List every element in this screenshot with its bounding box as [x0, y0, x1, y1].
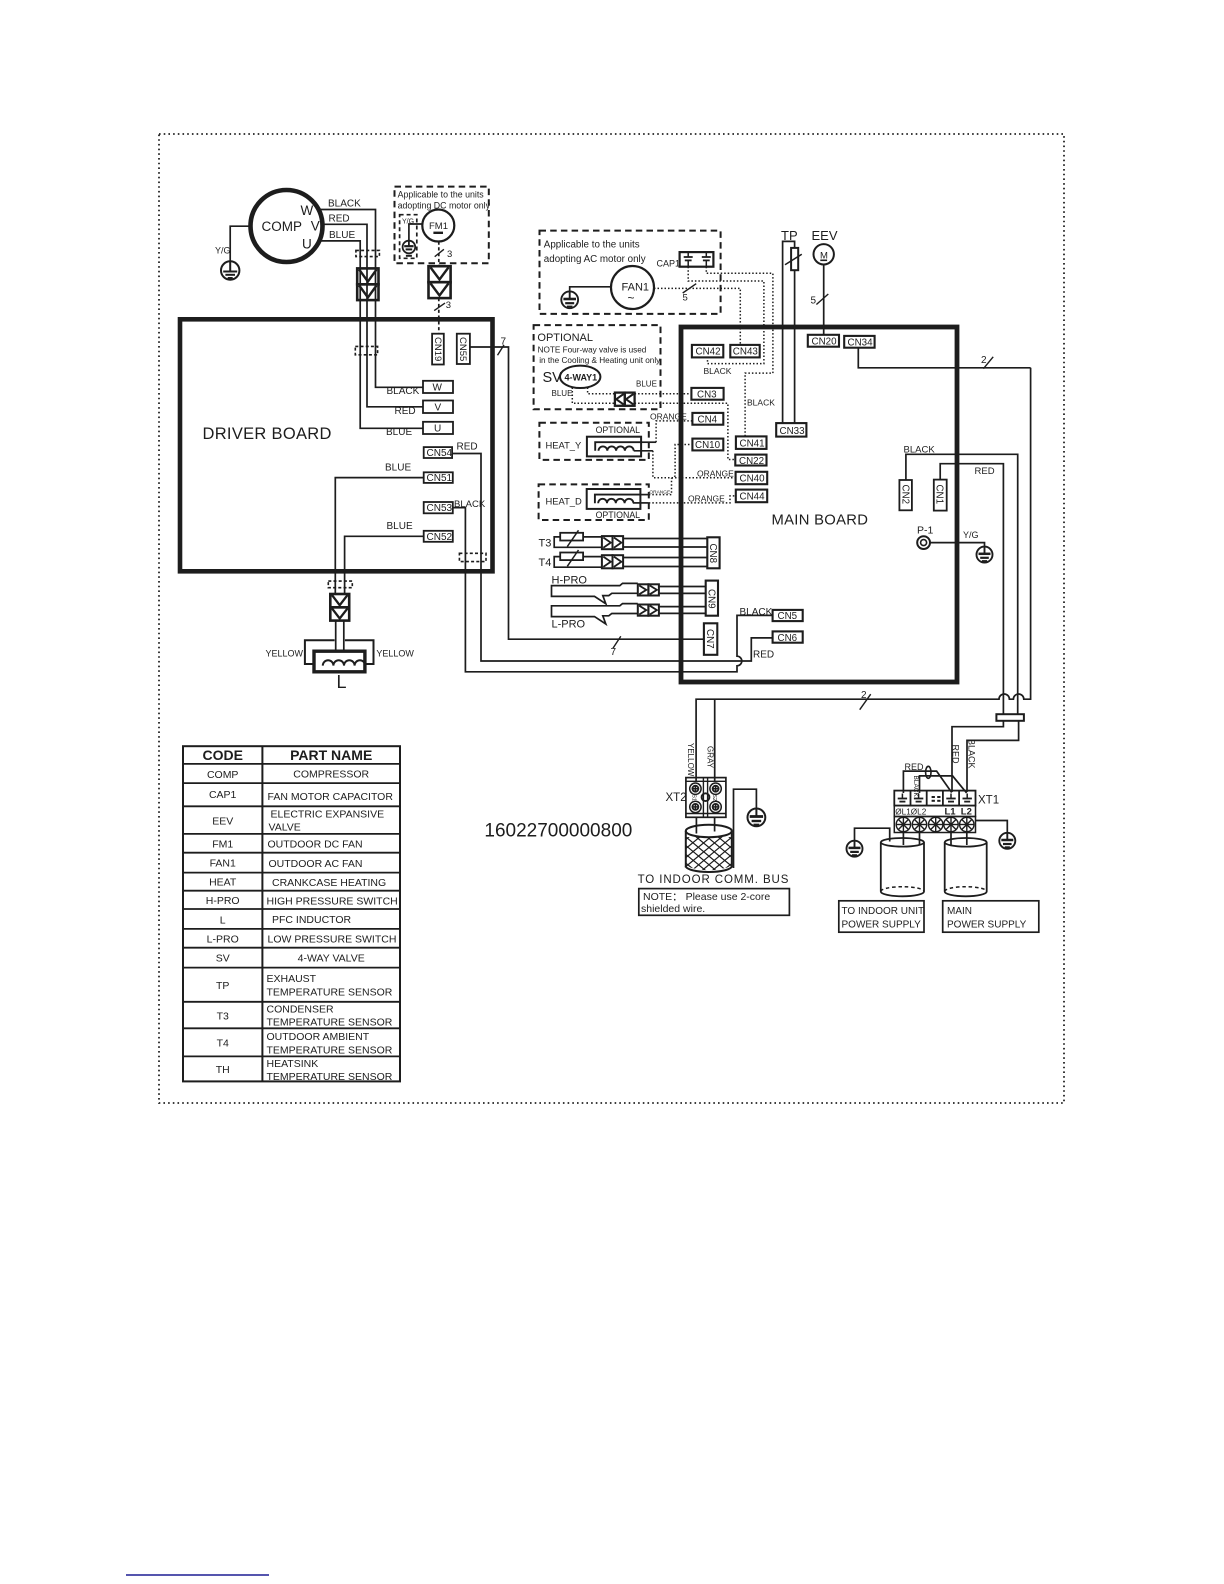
- svg-text:CONDENSER: CONDENSER: [267, 1004, 335, 1016]
- svg-text:CN54: CN54: [427, 448, 453, 459]
- svg-text:ORANGE: ORANGE: [688, 494, 725, 504]
- svg-text:in the Cooling & Heating unit: in the Cooling & Heating unit only: [539, 356, 661, 365]
- wire to ground right of XT1: [976, 821, 1008, 833]
- OPTIONAL four-way valve dashed box: [534, 325, 661, 409]
- wire COMP Y/G to ground: [230, 226, 250, 261]
- shielded cable braid: [695, 817, 697, 833]
- HEAT_Y dashed box: [539, 423, 648, 460]
- note box: [639, 889, 790, 916]
- svg-text:POWER SUPPLY: POWER SUPPLY: [842, 920, 922, 931]
- svg-text:U: U: [434, 424, 441, 435]
- connector CN3: [691, 388, 723, 400]
- svg-text:BLACK: BLACK: [704, 366, 732, 376]
- svg-text:adopting DC motor only: adopting DC motor only: [398, 201, 491, 211]
- svg-text:T3: T3: [539, 538, 552, 550]
- svg-text:H-PRO: H-PRO: [206, 895, 240, 907]
- wire connector to inductor: [335, 621, 337, 652]
- svg-text:ORANGE: ORANGE: [649, 490, 670, 496]
- svg-text:5: 5: [683, 293, 688, 304]
- connector CN44: [736, 490, 767, 503]
- wire HEAT_D top to CN10: [640, 494, 648, 496]
- connector CN40: [736, 472, 768, 484]
- svg-text:CAP1: CAP1: [657, 259, 681, 269]
- wire H-PRO to CN9: [659, 586, 706, 588]
- PFC inductor L outer frame: [305, 640, 374, 664]
- svg-text:Y/G: Y/G: [963, 530, 979, 540]
- PFC inductor L coil box: [314, 651, 365, 672]
- svg-text:FM1: FM1: [212, 839, 233, 851]
- parts table: [183, 746, 400, 1081]
- svg-text:CN22: CN22: [739, 456, 764, 467]
- wire SV to connector (blue pair): [572, 388, 615, 404]
- terminal W on driver board: [423, 381, 453, 393]
- wire COMP V RED: [322, 224, 423, 406]
- svg-text:W: W: [301, 203, 314, 218]
- wire T3 to CN8: [623, 538, 707, 540]
- svg-text:OPTIONAL: OPTIONAL: [596, 510, 641, 520]
- wire CN52 BLUE down to inductor: [345, 536, 424, 594]
- heater HEAT_Y: [587, 437, 641, 457]
- wire CN55 7-core bus to CN7: [470, 347, 704, 639]
- wire CN2 BLACK to XT1: [906, 454, 1018, 714]
- connector CN52: [424, 531, 453, 542]
- svg-text:BLUE: BLUE: [387, 521, 413, 532]
- svg-text:7: 7: [501, 337, 507, 348]
- svg-text:LOW PRESSURE SWITCH: LOW PRESSURE SWITCH: [268, 934, 397, 946]
- svg-text:Applicable to the units: Applicable to the units: [398, 190, 485, 200]
- wire CN54 RED to CN6: [452, 454, 772, 662]
- svg-text:OUTDOOR DC FAN: OUTDOOR DC FAN: [268, 839, 363, 851]
- svg-text:YELLOW: YELLOW: [266, 649, 304, 659]
- svg-text:TEMPERATURE SENSOR: TEMPERATURE SENSOR: [267, 1071, 393, 1083]
- svg-text:PFC INDUCTOR: PFC INDUCTOR: [272, 914, 352, 926]
- svg-text:P-1: P-1: [917, 525, 934, 537]
- ground P-1 Y/G: [977, 547, 993, 563]
- svg-text:EXHAUST: EXHAUST: [267, 973, 317, 985]
- svg-text:V: V: [311, 219, 320, 234]
- svg-text:HEATSINK: HEATSINK: [267, 1058, 319, 1070]
- svg-text:U: U: [302, 237, 312, 252]
- svg-text:YELLOW: YELLOW: [376, 649, 414, 659]
- connector CN55 (vertical): [457, 334, 470, 364]
- svg-text:NOTE： Please use 2-core: NOTE： Please use 2-core: [643, 891, 770, 903]
- wire EEV to CN20 (5): [823, 265, 825, 335]
- wire COMP U BLUE: [319, 241, 424, 428]
- svg-text:CN8: CN8: [707, 544, 718, 564]
- connector CN7 (vertical): [704, 623, 717, 655]
- svg-text:RED: RED: [329, 214, 350, 225]
- svg-text:COMP: COMP: [207, 769, 239, 781]
- connector H-PRO: [638, 584, 659, 595]
- svg-text:GRAY: GRAY: [705, 746, 714, 769]
- svg-text:CN33: CN33: [780, 426, 806, 437]
- blue footer line: [126, 1574, 269, 1576]
- svg-text:RED: RED: [950, 745, 960, 765]
- connector CN4: [692, 413, 723, 425]
- svg-text:CN41: CN41: [740, 438, 765, 449]
- connector CN1 (vertical): [934, 480, 947, 511]
- ferrite (dashed) on RED/BLACK wires: [459, 553, 486, 561]
- svg-text:SV: SV: [216, 953, 230, 965]
- svg-text:4-WAY VALVE: 4-WAY VALVE: [298, 953, 365, 965]
- ground shield (comm): [748, 809, 766, 827]
- svg-text:OUTDOOR AC FAN: OUTDOOR AC FAN: [269, 858, 363, 870]
- wire CN53 BLACK to CN5 (hop over RED wire): [453, 508, 773, 672]
- svg-text:HEAT_Y: HEAT_Y: [546, 440, 583, 451]
- wire FAN1 to CN43 (5): [654, 288, 740, 345]
- svg-text:CN6: CN6: [778, 633, 798, 644]
- fan motor FAN1: [611, 266, 654, 309]
- svg-text:CN53: CN53: [427, 503, 453, 514]
- svg-text:EEV: EEV: [812, 228, 838, 243]
- connector CN20: [808, 335, 839, 347]
- svg-text:TP: TP: [216, 980, 229, 992]
- ground left of XT1: [855, 828, 890, 841]
- svg-text:CN44: CN44: [740, 492, 766, 503]
- svg-text:TEMPERATURE SENSOR: TEMPERATURE SENSOR: [267, 1017, 393, 1029]
- svg-text:BLACK: BLACK: [747, 398, 775, 408]
- svg-text:HEAT: HEAT: [209, 877, 237, 889]
- wire connector to CN3: [635, 393, 692, 395]
- svg-text:BLACK: BLACK: [387, 386, 420, 397]
- svg-text:CAP1: CAP1: [209, 789, 237, 801]
- connector CN6: [773, 631, 803, 642]
- FAN1 dashed box: [540, 231, 721, 314]
- wire COMP W BLACK: [319, 210, 424, 388]
- wire L-PRO to CN9: [659, 606, 706, 608]
- ground FAN1: [561, 291, 578, 308]
- wire connector to CN22: [635, 403, 736, 459]
- compressor COMP: [251, 190, 323, 262]
- connector CN2 (vertical): [899, 480, 912, 510]
- wire FAN1 to ground: [570, 287, 611, 292]
- svg-text:HEAT_D: HEAT_D: [546, 496, 583, 507]
- svg-text:XT1: XT1: [978, 795, 999, 807]
- ground FM1: [403, 241, 416, 256]
- connector CN54: [424, 447, 452, 458]
- ground COMP: [221, 261, 239, 279]
- svg-text:BLACK: BLACK: [328, 199, 361, 210]
- svg-text:2: 2: [981, 355, 987, 366]
- svg-text:L-PRO: L-PRO: [207, 934, 239, 946]
- XT2 screws: [690, 783, 722, 813]
- connector below driver board: [330, 594, 349, 621]
- connector CN5: [773, 610, 803, 621]
- svg-text:7: 7: [611, 647, 617, 658]
- connector CN51: [424, 472, 453, 483]
- svg-text:BLUE: BLUE: [386, 427, 412, 438]
- svg-text:RED: RED: [457, 442, 478, 453]
- Y/G dashed box in FM1: [400, 215, 417, 259]
- connector L-PRO: [638, 605, 659, 616]
- svg-text:CN9: CN9: [706, 589, 717, 609]
- wire FM1 to ground: [409, 224, 422, 241]
- terminal V on driver board: [423, 401, 453, 414]
- svg-text:CODE: CODE: [202, 747, 242, 763]
- svg-text:L-PRO: L-PRO: [552, 619, 586, 631]
- main board outline: [681, 327, 957, 682]
- ferrite (dashed) below driver board: [328, 581, 352, 588]
- svg-text:TH: TH: [216, 1064, 230, 1076]
- svg-text:BLUE: BLUE: [329, 230, 355, 241]
- svg-text:T3: T3: [217, 1011, 229, 1023]
- wire CAP1 right to CN41: [706, 267, 773, 437]
- svg-text:NOTE Four-way valve is used: NOTE Four-way valve is used: [538, 346, 647, 355]
- svg-text:Applicable to the units: Applicable to the units: [544, 240, 640, 251]
- wire CN1 RED to XT1: [940, 464, 1003, 715]
- wire braid shield to ground: [734, 789, 757, 868]
- svg-text:CN5: CN5: [778, 611, 798, 622]
- svg-text:CN43: CN43: [733, 347, 759, 358]
- terminal U on driver board: [423, 422, 453, 434]
- svg-text:~: ~: [628, 291, 635, 305]
- svg-text:CN4: CN4: [698, 414, 718, 425]
- svg-text:BLACK: BLACK: [912, 776, 919, 798]
- svg-text:PART NAME: PART NAME: [290, 747, 372, 763]
- XT1 cell symbols: [898, 794, 972, 802]
- svg-text:T4: T4: [217, 1038, 229, 1050]
- svg-text:CRANKCASE HEATING: CRANKCASE HEATING: [272, 877, 386, 889]
- connector CN10: [692, 439, 723, 451]
- jumper RED terminal1-terminal4: [903, 771, 951, 793]
- svg-text:CN20: CN20: [812, 336, 838, 347]
- wire CN51 BLUE down to inductor: [335, 478, 423, 594]
- svg-text:4-WAY1: 4-WAY1: [565, 373, 598, 383]
- label box TO INDOOR UNIT POWER SUPPLY: [839, 901, 924, 932]
- svg-text:VALVE: VALVE: [269, 822, 301, 834]
- terminal block XT1: [894, 791, 975, 833]
- connector CN43: [730, 345, 759, 358]
- svg-text:OPTIONAL: OPTIONAL: [596, 425, 641, 435]
- svg-text:BLUE: BLUE: [636, 380, 657, 389]
- ground right of XT1: [999, 833, 1015, 849]
- svg-text:3: 3: [446, 300, 451, 311]
- svg-text:TO INDOOR COMM. BUS: TO INDOOR COMM. BUS: [638, 874, 790, 886]
- connector CN42: [692, 345, 723, 358]
- svg-text:BLACK: BLACK: [904, 445, 936, 456]
- svg-text:L: L: [220, 915, 226, 927]
- svg-text:CN51: CN51: [427, 473, 453, 484]
- svg-text:POWER SUPPLY: POWER SUPPLY: [947, 920, 1027, 931]
- svg-text:DRIVER BOARD: DRIVER BOARD: [203, 425, 332, 443]
- svg-text:W: W: [433, 383, 443, 394]
- svg-text:HIGH PRESSURE SWITCH: HIGH PRESSURE SWITCH: [267, 896, 398, 908]
- svg-text:L2: L2: [961, 807, 972, 818]
- svg-text:adopting AC motor only: adopting AC motor only: [544, 254, 646, 265]
- connector CN22: [735, 455, 766, 466]
- svg-text:CN7: CN7: [704, 629, 715, 649]
- svg-text:FM1: FM1: [429, 221, 448, 232]
- supply cylinder TO INDOOR UNIT: [902, 833, 904, 846]
- svg-text:2: 2: [861, 690, 867, 701]
- connector CN9 (vertical): [706, 581, 718, 616]
- ferrite (dashed) on COMP wires: [356, 250, 380, 256]
- wire BLACK to XT1 L2: [967, 721, 1019, 792]
- wire CAP1 left to CN42: [688, 267, 764, 364]
- svg-text:ELECTRIC EXPANSIVE: ELECTRIC EXPANSIVE: [271, 809, 385, 821]
- wire CN34 comm bus (2) to XT2: [858, 348, 1030, 368]
- svg-text:TEMPERATURE SENSOR: TEMPERATURE SENSOR: [267, 987, 393, 999]
- svg-text:FAN MOTOR CAPACITOR: FAN MOTOR CAPACITOR: [268, 791, 394, 803]
- FM1 dashed box: [395, 187, 489, 264]
- supply cylinder MAIN: [950, 833, 952, 846]
- svg-text:COMP: COMP: [262, 219, 303, 234]
- svg-text:EEV: EEV: [212, 816, 233, 828]
- svg-text:YELLOW: YELLOW: [686, 743, 695, 777]
- svg-text:OUTDOOR AMBIENT: OUTDOOR AMBIENT: [267, 1031, 370, 1043]
- connector T3: [602, 536, 623, 549]
- svg-text:MAIN BOARD: MAIN BOARD: [772, 513, 869, 529]
- connector CN33: [776, 423, 806, 437]
- ferrite on RED/BLACK pair above XT1: [996, 714, 1024, 721]
- svg-text:CN55: CN55: [457, 337, 468, 361]
- connector T4: [602, 555, 623, 568]
- svg-text:CN1: CN1: [934, 485, 945, 505]
- svg-text:CN3: CN3: [697, 389, 717, 400]
- svg-text:TO INDOOR UNIT: TO INDOOR UNIT: [842, 906, 925, 917]
- svg-text:T4: T4: [539, 557, 552, 569]
- svg-text:RED: RED: [753, 650, 774, 661]
- svg-text:RED: RED: [905, 762, 925, 772]
- wire T4 to CN8: [623, 557, 707, 559]
- svg-text:CN19: CN19: [432, 337, 443, 361]
- svg-text:CN10: CN10: [695, 440, 721, 451]
- svg-text:H-PRO: H-PRO: [552, 575, 588, 587]
- driver board outline: [180, 319, 493, 571]
- ferrite (dashed) inside driver board: [355, 346, 377, 354]
- connector CN34: [844, 336, 874, 348]
- wire FM1 down (3-core): [438, 242, 440, 267]
- wire RED to XT1 L1: [952, 721, 1003, 792]
- fan motor FM1: [422, 210, 454, 242]
- svg-text:CN42: CN42: [696, 347, 721, 358]
- svg-text:OPTIONAL: OPTIONAL: [537, 332, 593, 344]
- connector CN19 (vertical): [432, 334, 444, 365]
- svg-text:16022700000800: 16022700000800: [484, 821, 632, 842]
- svg-text:FAN1: FAN1: [622, 282, 650, 294]
- wire FM1 connector to CN19: [438, 298, 440, 334]
- jumper BLACK terminal2-terminal5: [920, 776, 967, 793]
- svg-text:ORANGE: ORANGE: [697, 469, 734, 479]
- svg-text:CN34: CN34: [848, 337, 874, 348]
- connector CN8 (vertical): [707, 537, 719, 568]
- connector 4-way valve: [615, 393, 635, 406]
- svg-text:L: L: [337, 672, 347, 692]
- label box MAIN POWER SUPPLY: [943, 901, 1039, 932]
- XT1 screws: [896, 817, 974, 831]
- svg-text:CN40: CN40: [740, 474, 766, 485]
- connector CN53: [424, 502, 453, 513]
- svg-text:MAIN: MAIN: [947, 906, 972, 917]
- svg-text:FAN1: FAN1: [210, 858, 236, 870]
- svg-text:Y/G: Y/G: [215, 246, 231, 256]
- svg-text:V: V: [435, 403, 442, 414]
- HEAT_D dashed box: [539, 484, 649, 520]
- svg-text:TEMPERATURE SENSOR: TEMPERATURE SENSOR: [267, 1045, 393, 1057]
- wire HEAT_Y top to CN4 (orange): [641, 441, 656, 443]
- svg-text:shielded wire.: shielded wire.: [641, 903, 705, 915]
- svg-text:ØL1ØL2: ØL1ØL2: [895, 808, 926, 817]
- svg-text:CN52: CN52: [427, 532, 453, 543]
- wire HEAT_Y bottom to CN40 (orange): [634, 450, 653, 452]
- svg-text:L1: L1: [945, 807, 957, 818]
- svg-text:BLACK: BLACK: [966, 739, 976, 769]
- svg-text:COMPRESSOR: COMPRESSOR: [293, 769, 369, 781]
- heater HEAT_D: [587, 489, 641, 509]
- svg-text:RED: RED: [975, 466, 995, 477]
- wire P-1 to ground Y/G: [930, 543, 985, 547]
- svg-text:BLACK: BLACK: [740, 607, 773, 618]
- connector CN41: [736, 436, 767, 449]
- svg-text:S1: S1: [691, 794, 697, 801]
- connector FM1: [429, 266, 451, 298]
- svg-text:5: 5: [811, 296, 817, 307]
- svg-text:RED: RED: [395, 406, 416, 417]
- connector on COMP wires: [357, 268, 378, 300]
- svg-text:3: 3: [447, 249, 452, 260]
- svg-text:S2: S2: [711, 794, 717, 801]
- wire HEAT_D bottom to CN44 (orange): [633, 502, 649, 504]
- svg-text:BLUE: BLUE: [552, 389, 573, 398]
- svg-text:CN2: CN2: [899, 485, 910, 505]
- svg-text:BLUE: BLUE: [385, 463, 411, 474]
- svg-text:XT2: XT2: [666, 792, 687, 804]
- dotted border frame: [159, 134, 1064, 1103]
